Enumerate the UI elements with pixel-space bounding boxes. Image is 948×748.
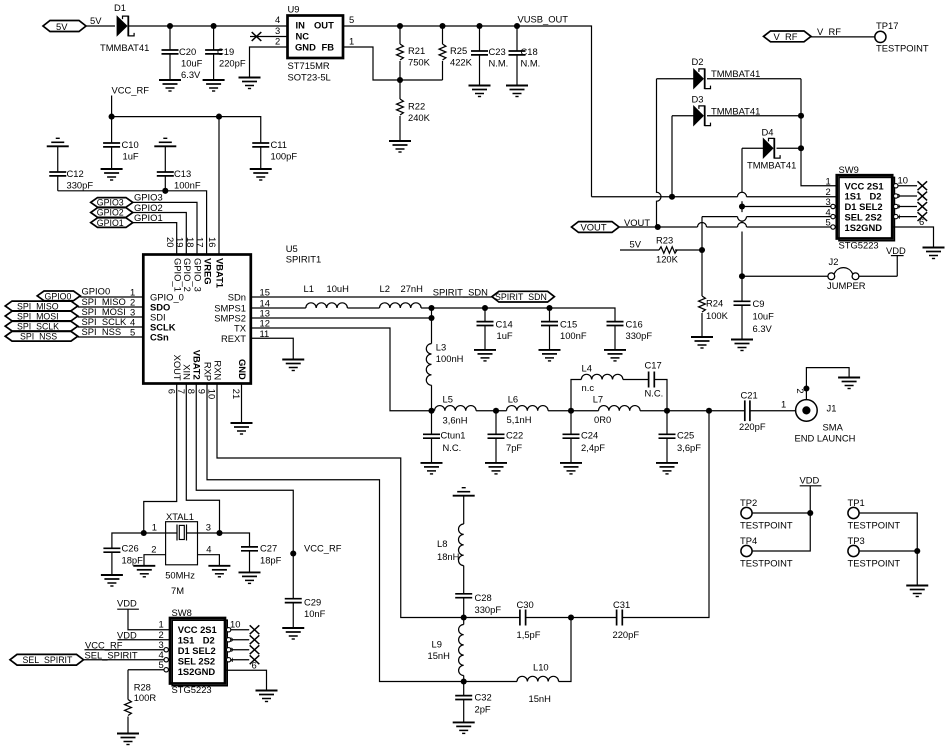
svg-text:27nH: 27nH <box>401 283 423 294</box>
svg-text:D2: D2 <box>870 191 882 202</box>
pin numbers bottom of U5 <box>166 389 242 399</box>
svg-text:GPIO0: GPIO0 <box>45 291 72 301</box>
ground under C15 <box>539 350 561 361</box>
svg-text:C10: C10 <box>122 139 139 150</box>
wire L5 to L6 <box>476 410 506 412</box>
svg-text:VOUT: VOUT <box>624 217 650 228</box>
resistor R24 100K <box>699 250 729 337</box>
svg-text:100nF: 100nF <box>560 330 587 341</box>
svg-text:2: 2 <box>826 186 831 197</box>
svg-text:15nH: 15nH <box>529 693 551 704</box>
capacitor C19 <box>205 23 246 80</box>
inductor L7 0R0 <box>593 394 640 425</box>
node GPIO0 flag <box>37 286 110 302</box>
svg-text:10: 10 <box>230 619 240 630</box>
connector J1 SMA END LAUNCH <box>795 388 856 443</box>
svg-text:TP4: TP4 <box>740 535 757 546</box>
svg-text:3,6nH: 3,6nH <box>443 415 468 426</box>
ground at REXT <box>282 360 304 371</box>
wire SPI_NSS to pin 5 <box>78 336 144 338</box>
svg-text:TMMBAT41: TMMBAT41 <box>711 106 760 117</box>
svg-text:1S1: 1S1 <box>178 635 195 646</box>
U5 right pin names <box>214 291 247 343</box>
node VDD testpoint rail <box>800 475 822 517</box>
svg-text:D3: D3 <box>692 94 704 105</box>
capacitor C20 <box>162 23 203 80</box>
svg-text:n.c: n.c <box>582 382 595 393</box>
svg-text:17: 17 <box>195 237 206 247</box>
wire XOUT pin 6 to XTAL pin 1 <box>144 384 177 534</box>
svg-text:SMA: SMA <box>823 422 844 433</box>
svg-text:TESTPOINT: TESTPOINT <box>876 43 929 54</box>
svg-text:6.3V: 6.3V <box>181 69 201 80</box>
svg-text:TESTPOINT: TESTPOINT <box>848 558 901 569</box>
wire R28 to SW8 pin 5 <box>128 659 170 700</box>
ground under C10 <box>101 169 123 180</box>
wire XTAL pin 2 to ground <box>144 555 166 566</box>
svg-text:1: 1 <box>152 522 157 533</box>
wire TP2 to VDD <box>752 512 810 514</box>
wire diode-OR cathodes to SW9 pin 1 <box>801 79 837 186</box>
ground under R24 <box>691 337 713 348</box>
ground under R22 <box>389 141 411 152</box>
capacitor C23 N.M. <box>471 23 508 86</box>
wire RXN pin 10 to matching network <box>217 384 464 618</box>
svg-text:16: 16 <box>207 237 218 247</box>
svg-text:SPI_MOSI: SPI_MOSI <box>17 312 59 322</box>
svg-text:SEL 2S2: SEL 2S2 <box>178 655 215 666</box>
SW9 pin 3 wire from D4 column <box>742 206 837 208</box>
capacitor C29 10nF <box>285 597 326 629</box>
svg-text:XTAL1: XTAL1 <box>166 511 194 522</box>
wire SW9 pin 6 to ground <box>892 227 933 248</box>
svg-text:R21: R21 <box>408 45 425 56</box>
svg-text:N.C.: N.C. <box>645 387 664 398</box>
switch SW9 STG5223 <box>837 164 895 251</box>
capacitor C21 220pF <box>739 389 766 432</box>
capacitor C28 330pF <box>455 566 501 618</box>
svg-text:100K: 100K <box>706 310 729 321</box>
svg-text:1S1: 1S1 <box>845 191 862 202</box>
svg-text:10: 10 <box>207 389 218 399</box>
svg-text:RXP: RXP <box>202 362 213 381</box>
wire U9 pin5 VUSB_OUT rail <box>343 26 592 197</box>
svg-text:C28: C28 <box>475 592 492 603</box>
ground under R28 <box>117 734 139 745</box>
wire VBAT2 pin 8 to VCC_RF node <box>196 384 293 599</box>
svg-text:5: 5 <box>159 659 164 670</box>
wire GPIO2 to pin 19 <box>133 213 186 255</box>
svg-text:2,4pF: 2,4pF <box>581 442 605 453</box>
svg-text:STG5223: STG5223 <box>839 240 879 251</box>
wire XIN pin 7 to XTAL pin 3 <box>186 384 219 534</box>
inverted ground above C13 <box>154 138 176 146</box>
svg-text:U9: U9 <box>288 4 300 15</box>
ground at U9 pin 2 <box>239 78 261 89</box>
svg-text:J2: J2 <box>829 256 839 267</box>
wire GPIO0 to pin 1 <box>80 296 143 298</box>
svg-text:U5: U5 <box>286 243 298 254</box>
wire VCC_RF rail <box>112 96 261 144</box>
inductor L3 100nH <box>426 342 463 386</box>
ground under C18 <box>506 86 528 97</box>
svg-text:1: 1 <box>349 36 354 47</box>
svg-text:750K: 750K <box>408 57 431 68</box>
svg-text:SPIRIT_SDN: SPIRIT_SDN <box>495 292 547 302</box>
svg-text:L7: L7 <box>593 394 603 405</box>
svg-text:15nH: 15nH <box>428 650 450 661</box>
svg-text:6: 6 <box>252 660 257 671</box>
svg-text:GPIO3: GPIO3 <box>97 198 124 208</box>
svg-text:11: 11 <box>260 328 270 339</box>
capacitor C10 <box>103 117 139 169</box>
svg-text:VDD: VDD <box>886 245 906 256</box>
svg-text:L5: L5 <box>443 394 453 405</box>
svg-text:Ctun1: Ctun1 <box>441 429 466 440</box>
svg-text:7: 7 <box>176 389 187 394</box>
resistor R22 240K <box>397 80 431 141</box>
svg-text:1: 1 <box>781 399 786 410</box>
capacitor C14 <box>477 308 513 350</box>
svg-text:C13: C13 <box>174 168 191 179</box>
svg-text:JUMPER: JUMPER <box>827 280 866 291</box>
capacitor C31 220pF <box>613 599 640 640</box>
svg-text:TMMBAT41: TMMBAT41 <box>100 42 149 53</box>
svg-text:GPIO_2: GPIO_2 <box>182 258 193 292</box>
wire L1 to L2 <box>347 307 379 309</box>
wire L2 to C16 corner <box>421 308 615 322</box>
wire VUSB horizontal to SW9 pin 2 <box>592 196 837 198</box>
inductor L6 5,1nH <box>507 394 549 425</box>
svg-text:1,5pF: 1,5pF <box>517 629 541 640</box>
svg-text:TMMBAT41: TMMBAT41 <box>747 160 796 171</box>
capacitor C18 N.M. <box>509 23 541 86</box>
node VOUT flag <box>572 217 651 232</box>
ground under C25 <box>656 463 678 474</box>
node SPI_NSS flag <box>5 326 121 342</box>
inverted ground above L8 <box>453 488 475 496</box>
SW8 pin entry circles <box>164 648 168 672</box>
svg-text:C26: C26 <box>122 543 139 554</box>
capacitor C11 <box>252 139 297 169</box>
svg-text:10nF: 10nF <box>304 608 326 619</box>
svg-text:L6: L6 <box>508 394 518 405</box>
U5 rotated top pin names <box>172 258 225 292</box>
svg-text:20: 20 <box>165 237 176 247</box>
svg-text:L4: L4 <box>582 363 592 374</box>
svg-text:2: 2 <box>275 36 280 47</box>
node SPIRIT_SDN flag <box>492 291 555 302</box>
U5 left pin names <box>150 291 184 342</box>
resistor R23 120K <box>620 235 705 265</box>
svg-text:V_RF: V_RF <box>817 26 841 37</box>
svg-text:4: 4 <box>206 544 211 555</box>
wire D3 anode to VUSB <box>671 116 673 197</box>
wire GPIO1 to pin 20 <box>133 223 177 255</box>
svg-text:GPIO1: GPIO1 <box>134 212 163 223</box>
node SPI_SCLK flag <box>5 316 127 332</box>
crystal XTAL1 50MHz <box>151 511 211 596</box>
wire row to C30 <box>464 617 520 619</box>
pin numbers right side U5 <box>260 286 270 339</box>
capacitor C30 1,5pF <box>517 599 541 640</box>
testpoint TP3 <box>848 535 901 569</box>
svg-text:L2: L2 <box>380 283 390 294</box>
svg-text:V_RF: V_RF <box>774 31 798 42</box>
U5 rotated bottom pin names <box>172 350 248 381</box>
inductor L4 n.c <box>581 363 623 393</box>
svg-text:240K: 240K <box>408 112 431 123</box>
svg-text:R28: R28 <box>134 682 151 693</box>
diode D4 TMMBAT41 <box>742 127 801 171</box>
ground under C22 <box>485 463 507 474</box>
svg-text:J1: J1 <box>827 403 837 414</box>
svg-text:C20: C20 <box>179 46 196 57</box>
capacitor C13 <box>157 146 201 191</box>
svg-text:VDD: VDD <box>800 475 820 486</box>
wire V_RF to TP17 <box>811 36 875 38</box>
node GPIO2 flag <box>91 202 163 218</box>
svg-text:GPIO_1: GPIO_1 <box>172 258 183 292</box>
wire SDn pin 15 <box>251 296 492 298</box>
wire SPI_MOSI to pin 3 <box>78 316 144 318</box>
svg-text:1: 1 <box>159 619 164 630</box>
svg-text:VCC_RF: VCC_RF <box>304 543 342 554</box>
svg-text:GND: GND <box>295 42 316 53</box>
svg-text:C14: C14 <box>496 319 513 330</box>
svg-text:C25: C25 <box>677 429 694 440</box>
svg-text:L3: L3 <box>436 342 446 353</box>
node L9 C32 junction <box>461 678 467 684</box>
capacitor C24 2,4pF <box>563 411 606 463</box>
ground under C19 <box>203 80 225 91</box>
svg-text:XIN: XIN <box>182 364 193 380</box>
svg-text:100pF: 100pF <box>271 151 298 162</box>
capacitor C25 3,6pF <box>659 411 702 463</box>
resistor R21 750K <box>397 23 431 83</box>
svg-text:TESTPOINT: TESTPOINT <box>740 520 793 531</box>
svg-text:SPIRIT_SDN: SPIRIT_SDN <box>433 287 488 298</box>
ground under C26 <box>101 575 123 586</box>
ground under Ctun1 <box>421 463 443 474</box>
svg-text:R24: R24 <box>706 298 723 309</box>
wire TP4 to VDD <box>752 513 810 551</box>
inverted ground above C12 <box>47 138 69 146</box>
capacitor C32 2pF <box>455 682 492 723</box>
svg-text:3: 3 <box>206 522 211 533</box>
wire L7 to C21 <box>640 410 745 412</box>
ground under C24 <box>560 463 582 474</box>
svg-text:GPIO2: GPIO2 <box>97 208 124 218</box>
wire XTAL pin 4 to ground <box>198 555 220 566</box>
ground under C16 <box>604 350 626 361</box>
svg-text:330pF: 330pF <box>475 604 502 615</box>
ground under C9 <box>731 340 753 351</box>
svg-text:1S2GND: 1S2GND <box>178 666 216 677</box>
wire SMPS2 pin 13 <box>251 317 432 319</box>
svg-text:C17: C17 <box>645 360 662 371</box>
svg-text:5: 5 <box>826 217 831 228</box>
svg-text:TMMBAT41: TMMBAT41 <box>711 68 760 79</box>
svg-text:6: 6 <box>166 389 177 394</box>
svg-text:8: 8 <box>186 389 197 394</box>
svg-text:C32: C32 <box>475 692 492 703</box>
svg-text:C15: C15 <box>560 319 577 330</box>
resistor R25 422K <box>439 23 473 80</box>
svg-text:L9: L9 <box>432 639 442 650</box>
svg-text:6: 6 <box>919 216 924 227</box>
capacitor C27 18pF <box>241 543 282 573</box>
wire D4 anode column <box>741 148 743 301</box>
capacitor C17 N.C. <box>645 360 664 399</box>
node 5V input flag <box>43 15 102 32</box>
svg-text:6.3V: 6.3V <box>753 323 773 334</box>
svg-text:15: 15 <box>260 286 270 297</box>
svg-text:10uF: 10uF <box>753 311 775 322</box>
svg-text:ST715MR: ST715MR <box>288 60 330 71</box>
svg-text:D2: D2 <box>203 635 215 646</box>
node GPIO3 flag <box>91 192 163 208</box>
svg-text:RXN: RXN <box>212 360 223 380</box>
wire L10 up to C30 C31 node <box>559 618 571 682</box>
svg-text:9: 9 <box>197 389 208 394</box>
wire U9 pin1 FB to divider <box>343 47 443 80</box>
svg-text:5V: 5V <box>90 15 102 26</box>
svg-text:END LAUNCH: END LAUNCH <box>795 433 856 444</box>
svg-text:GPIO_3: GPIO_3 <box>193 258 204 292</box>
svg-text:220pF: 220pF <box>739 421 766 432</box>
svg-text:SPI_NSS: SPI_NSS <box>82 326 122 337</box>
svg-text:10uH: 10uH <box>327 283 349 294</box>
SW9 pin numbers left <box>826 175 831 227</box>
testpoint TP17 <box>875 20 929 54</box>
svg-text:GPIO1: GPIO1 <box>97 218 124 228</box>
wire C31 up to RF line <box>622 411 709 618</box>
svg-text:330pF: 330pF <box>626 330 653 341</box>
svg-text:R25: R25 <box>450 45 467 56</box>
svg-text:SPIRIT1: SPIRIT1 <box>286 254 321 265</box>
capacitor C16 <box>607 319 653 350</box>
wire REXT pin 11 <box>251 338 293 359</box>
no-connect X on U9 pin 3 <box>250 32 288 41</box>
svg-text:C27: C27 <box>260 543 277 554</box>
inductor L8 18nH <box>437 496 464 566</box>
svg-text:3: 3 <box>275 25 280 36</box>
node C28 L9 junction <box>461 614 467 620</box>
svg-text:C16: C16 <box>626 319 643 330</box>
svg-text:120K: 120K <box>656 254 679 265</box>
svg-text:5V: 5V <box>630 239 642 250</box>
svg-text:4: 4 <box>275 14 280 25</box>
branch L4 C17 n.c. <box>571 380 581 411</box>
svg-text:2: 2 <box>151 544 156 555</box>
node V_RF flag <box>764 26 842 42</box>
svg-text:R23: R23 <box>656 235 673 246</box>
svg-text:SOT23-5L: SOT23-5L <box>288 72 331 83</box>
svg-text:18nH: 18nH <box>437 551 459 562</box>
svg-text:19: 19 <box>174 237 185 247</box>
ground under C23 <box>469 86 491 97</box>
capacitor C12 <box>49 146 93 191</box>
svg-text:VBAT1: VBAT1 <box>215 258 226 288</box>
testpoint TP4 <box>740 535 793 569</box>
svg-text:VDD: VDD <box>117 598 137 609</box>
capacitor Ctun1 N.C. <box>423 411 466 463</box>
IC U5 SPIRIT1 box <box>143 243 321 384</box>
svg-text:10uF: 10uF <box>181 58 203 69</box>
svg-text:SPI_NSS: SPI_NSS <box>20 332 57 342</box>
svg-text:330pF: 330pF <box>67 180 94 191</box>
inductor L9 15nH <box>428 618 464 682</box>
switch SW8 STG5223 <box>170 607 227 695</box>
svg-text:NC: NC <box>296 31 310 42</box>
svg-text:5,1nH: 5,1nH <box>507 414 532 425</box>
svg-text:C24: C24 <box>581 429 598 440</box>
svg-text:1S2GND: 1S2GND <box>845 222 883 233</box>
svg-text:CSn: CSn <box>150 331 169 342</box>
capacitor C22 7pF <box>488 411 524 463</box>
svg-text:L10: L10 <box>533 662 549 673</box>
resistor R28 100R <box>125 682 157 734</box>
svg-text:SEL 2S2: SEL 2S2 <box>845 212 882 223</box>
wire U9 pin 2 to ground <box>250 47 288 78</box>
svg-text:SW9: SW9 <box>839 164 859 175</box>
wire RXP pin 9 to matching network <box>207 384 464 682</box>
wire GPIO3 to pin 18 <box>133 202 197 254</box>
wire L4 to C17 <box>623 379 649 381</box>
wire J1 pin 2 to ground <box>806 368 849 400</box>
wire SMPS1-SMPS2 tie <box>431 308 433 344</box>
ground under C32 <box>453 722 475 733</box>
svg-text:TESTPOINT: TESTPOINT <box>848 520 901 531</box>
testpoint TP1 <box>848 497 901 531</box>
svg-text:XOUT: XOUT <box>172 355 183 381</box>
svg-text:SPI_MISO: SPI_MISO <box>17 301 59 311</box>
svg-text:100nF: 100nF <box>174 180 201 191</box>
svg-text:SDn: SDn <box>228 291 246 302</box>
node VCC_RF stub SW8 pin 3 <box>85 639 171 651</box>
svg-text:21: 21 <box>231 389 242 399</box>
svg-text:STG5223: STG5223 <box>172 684 212 695</box>
node VDD stub SW8 pin 2 <box>117 629 170 641</box>
svg-text:D2: D2 <box>692 56 704 67</box>
svg-text:100R: 100R <box>134 692 157 703</box>
svg-text:1uF: 1uF <box>497 330 513 341</box>
inductor L5 3,6nH <box>435 394 477 426</box>
svg-text:N.C.: N.C. <box>443 442 462 453</box>
diode D1 TMMBAT41 <box>100 2 149 53</box>
svg-text:IN: IN <box>296 20 306 31</box>
wire SPI_MISO to pin 2 <box>78 306 144 308</box>
node VCC_RF at C29 <box>290 543 342 557</box>
wire TP3 to ground <box>859 551 917 586</box>
svg-text:TESTPOINT: TESTPOINT <box>740 558 793 569</box>
testpoint TP2 <box>740 497 793 531</box>
ground at XTAL pin 4 <box>208 566 230 577</box>
jumper J2 <box>742 256 897 291</box>
svg-text:220pF: 220pF <box>219 58 246 69</box>
wire R23 node to SW9 pin 4 <box>702 216 837 218</box>
wire L3 to RF node <box>431 385 433 411</box>
svg-text:7M: 7M <box>171 585 184 596</box>
svg-text:2pF: 2pF <box>475 704 491 715</box>
svg-text:REXT: REXT <box>221 333 246 344</box>
ground under C27 <box>239 572 261 583</box>
wire TX pin 12 to RF line <box>251 328 432 411</box>
svg-text:D4: D4 <box>762 127 774 138</box>
svg-text:GND: GND <box>237 359 248 380</box>
node SPI_MISO flag <box>5 296 126 312</box>
